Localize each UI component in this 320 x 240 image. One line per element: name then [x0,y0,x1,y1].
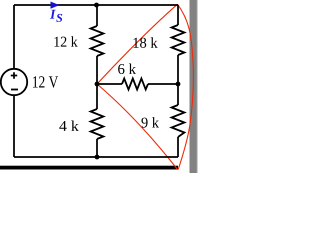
label 12 V [33,76,58,88]
voltage source V1 12V [1,69,27,95]
node right middle [176,82,181,87]
resistor 9k [172,105,185,137]
annotation line upper [97,4,178,84]
label 12 k [54,36,77,46]
wire bottom [14,156,178,158]
resistor 4k [91,109,104,139]
resistor 6k [122,79,148,90]
wire top [14,4,178,6]
label 4 k [59,120,78,130]
wire middle column mid [96,56,98,109]
wire 6k branch left [97,83,122,85]
label 18 k [133,37,157,48]
label 6 k [118,63,136,74]
node top middle [94,3,99,8]
wire left lower [13,95,15,157]
wire 6k branch right [148,83,178,85]
wire right column upper [177,5,179,25]
wire right column lower [177,137,179,157]
label 9 k [141,117,159,128]
wire left upper [13,5,15,69]
annotation curve right [178,4,194,169]
node middle [95,82,100,87]
resistor 12k [91,26,104,56]
wire right column mid [177,55,179,105]
wire middle column lower [96,139,98,157]
resistor 18k [172,25,185,55]
wire middle column upper [96,5,98,26]
label Is [50,10,62,22]
node bottom middle [95,155,100,160]
annotation line lower [97,84,177,169]
current arrow Is [51,2,60,9]
